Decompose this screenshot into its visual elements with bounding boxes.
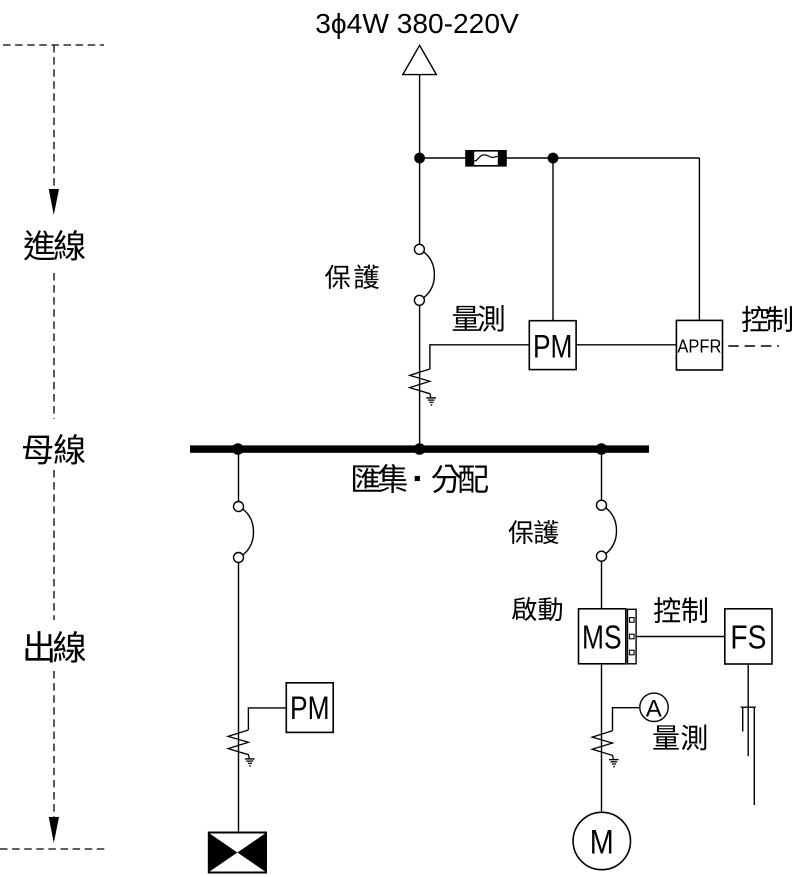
label 母線 (busbar) — [23, 434, 85, 464]
axis arrow 2 — [49, 817, 59, 843]
load bowtie — [209, 833, 266, 873]
circuit breaker CB2 — [234, 502, 254, 563]
label 保護 (protection) right — [508, 520, 558, 544]
busbar — [190, 445, 649, 452]
node busbar dot left — [232, 443, 244, 455]
wire to PM1 — [552, 158, 554, 321]
axis dashed segment 1 — [53, 45, 55, 190]
wire feeder left lower — [238, 563, 240, 833]
svg-text:A: A — [646, 695, 662, 722]
label 進線 (incoming line) — [24, 230, 85, 261]
label 出線 (outgoing line) — [26, 631, 86, 663]
wire MS to motor — [601, 664, 603, 811]
wire feeder left upper — [238, 453, 240, 502]
svg-text:PM: PM — [533, 328, 573, 364]
wire CT1 tap to PM1 — [430, 345, 529, 369]
wire FS down — [747, 664, 749, 707]
wire CT2 tap to PM2 — [248, 708, 286, 730]
axis bottom dashed line — [0, 848, 105, 850]
label 量測 (metering) top — [453, 305, 504, 332]
circuit breaker CB3 — [597, 500, 617, 561]
node busbar dot right — [596, 443, 608, 455]
label 控制 (control) right — [654, 597, 707, 623]
magnetic starter MS — [579, 609, 626, 664]
current transformer CT1 — [410, 369, 436, 406]
wire breaker3 to MS — [601, 561, 603, 609]
label 控制 (control) top — [742, 306, 792, 332]
current transformer CT3 — [592, 731, 618, 768]
circuit breaker CB1 — [414, 244, 434, 305]
svg-text:3ϕ4W 380-220V: 3ϕ4W 380-220V — [315, 7, 519, 39]
svg-text:M: M — [590, 823, 614, 861]
wire top horizontal — [420, 157, 700, 159]
wire breaker1 to busbar — [419, 305, 421, 446]
power factor regulator APFR — [676, 320, 722, 370]
current transformer CT2 — [228, 730, 254, 767]
electrode probe assembly — [741, 707, 756, 805]
node junction dot 2 — [548, 153, 559, 164]
svg-text:MS: MS — [582, 620, 622, 657]
power meter PM1 — [529, 321, 576, 370]
svg-text:FS: FS — [730, 620, 766, 657]
wire APFR control dashed — [723, 345, 780, 347]
axis dashed segment 4 — [53, 671, 55, 818]
wire incoming vertical — [419, 75, 421, 245]
MS auxiliary contact strip — [628, 609, 637, 664]
axis dashed segment 2 — [53, 273, 55, 419]
axis dashed segment 3 — [53, 470, 55, 620]
wire MS to FS — [636, 636, 725, 638]
wire to APFR — [698, 158, 700, 320]
label 匯集分配 (collect/distribute) — [353, 464, 488, 493]
label 量測 (metering) bottom — [653, 725, 706, 751]
ammeter A — [640, 693, 668, 722]
axis top dashed line — [3, 44, 104, 46]
node busbar dot center — [414, 443, 426, 455]
node junction dot 1 — [414, 153, 425, 164]
label 保護 (protection) top — [325, 265, 379, 290]
label 啟動 (start) — [512, 597, 562, 621]
wire feeder right upper — [601, 453, 603, 500]
float switch FS — [725, 609, 772, 664]
fuse (CT metering tap box) — [466, 151, 506, 166]
svg-text:APFR: APFR — [677, 335, 721, 356]
svg-text:PM: PM — [290, 690, 330, 726]
power meter PM2 — [286, 683, 333, 733]
wire CT3 tap to ammeter — [613, 708, 640, 731]
supply source triangle — [403, 45, 437, 74]
wire PM1 to APFR — [576, 344, 676, 346]
motor M — [573, 812, 630, 869]
axis arrow 1 — [49, 189, 59, 215]
